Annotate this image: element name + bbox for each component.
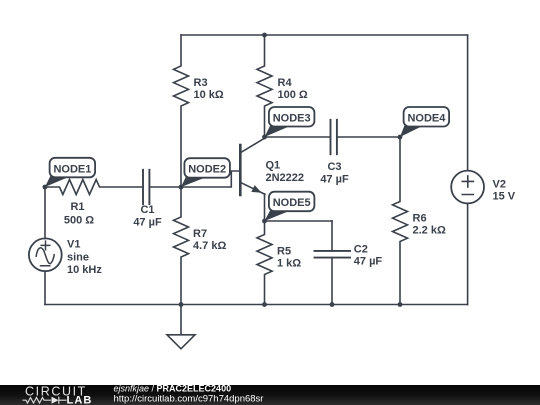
svg-text:15 V: 15 V — [493, 190, 516, 202]
svg-text:sine: sine — [67, 251, 89, 263]
svg-text:10 kΩ: 10 kΩ — [194, 89, 224, 101]
svg-text:R6: R6 — [413, 213, 427, 225]
svg-text:NODE3: NODE3 — [273, 113, 311, 125]
svg-text:ejsnfkjae / PRAC2ELEC2400: ejsnfkjae / PRAC2ELEC2400 — [114, 383, 232, 393]
svg-text:NODE4: NODE4 — [407, 113, 446, 125]
svg-text:500 Ω: 500 Ω — [64, 215, 94, 227]
svg-text:Q1: Q1 — [266, 160, 281, 172]
svg-text:100 Ω: 100 Ω — [278, 89, 308, 101]
svg-text:47 µF: 47 µF — [354, 256, 383, 268]
svg-text:http://circuitlab.com/c97h74dp: http://circuitlab.com/c97h74dpn68sr — [114, 393, 264, 404]
svg-text:C3: C3 — [327, 161, 341, 173]
svg-text:4.7 kΩ: 4.7 kΩ — [193, 240, 226, 252]
svg-text:10 kHz: 10 kHz — [67, 264, 102, 276]
svg-text:R1: R1 — [70, 201, 84, 213]
svg-text:47 µF: 47 µF — [133, 217, 162, 229]
svg-text:C1: C1 — [140, 204, 154, 216]
svg-text:LAB: LAB — [67, 394, 93, 405]
svg-text:2N2222: 2N2222 — [266, 172, 305, 184]
svg-text:47 µF: 47 µF — [320, 174, 349, 186]
svg-text:R7: R7 — [193, 228, 207, 240]
svg-text:NODE1: NODE1 — [53, 163, 91, 175]
svg-text:NODE2: NODE2 — [188, 164, 226, 176]
svg-text:C2: C2 — [354, 244, 368, 256]
svg-text:1 kΩ: 1 kΩ — [277, 258, 301, 270]
svg-text:2.2 kΩ: 2.2 kΩ — [413, 225, 446, 237]
svg-text:V2: V2 — [493, 178, 506, 190]
svg-text:NODE5: NODE5 — [273, 197, 311, 209]
svg-text:V1: V1 — [67, 239, 80, 251]
svg-text:R3: R3 — [194, 77, 208, 89]
svg-text:R4: R4 — [278, 77, 293, 89]
svg-text:R5: R5 — [277, 246, 291, 258]
